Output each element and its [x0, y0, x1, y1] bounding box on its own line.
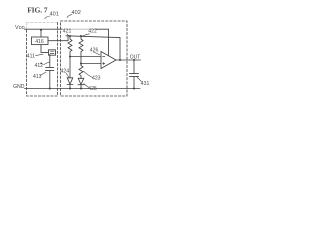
capacitor 431 top lead [133, 60, 135, 73]
wire opamp supply [96, 29, 109, 55]
capacitor 413 [46, 67, 54, 70]
node dot R421 top [69, 35, 71, 37]
capacitor 431 [130, 73, 139, 76]
leader 422 [82, 34, 90, 37]
diode 424 [67, 78, 73, 89]
wire 416 output to node [48, 36, 68, 41]
node dot out cap [133, 59, 135, 61]
leader 421 [67, 34, 70, 37]
feedback wire down to output [119, 38, 121, 60]
transistor 412 node dot [40, 63, 42, 65]
block 416 [32, 37, 49, 45]
capacitor 431 bottom lead [133, 76, 135, 88]
opamp input wire minus [70, 56, 101, 58]
node dot diode425 gnd [80, 88, 82, 90]
svg-text:FIG. 7: FIG. 7 [27, 5, 48, 14]
wire 421 to diode [69, 57, 71, 79]
node dot plus [80, 63, 82, 65]
leader 425 [84, 84, 89, 88]
svg-text:GND: GND [13, 84, 25, 90]
opamp input wire plus [81, 63, 101, 65]
leader 401 [45, 16, 50, 19]
output wire [116, 59, 141, 61]
wire 412 to cap [49, 54, 51, 67]
opamp minus sign [103, 56, 105, 58]
leader 424 [66, 73, 69, 78]
resistor 422 [79, 36, 83, 64]
node dot cap-gnd [49, 88, 51, 90]
dashed box 401 [27, 22, 58, 96]
leader 423 [84, 71, 93, 77]
diode 425 [78, 78, 84, 88]
svg-text:421: 421 [63, 29, 72, 35]
component 415 small box [49, 50, 56, 55]
svg-text:423: 423 [92, 75, 101, 81]
dashed box 401 top edge faint [27, 23, 58, 30]
node dot feedback [119, 59, 121, 61]
leader 411 [36, 54, 44, 55]
GND rail [25, 88, 141, 90]
node dot minus [69, 56, 71, 58]
VDD rail [25, 28, 63, 30]
wire cap to gnd [49, 71, 51, 89]
leader 413 [41, 72, 47, 75]
leader 412 [44, 62, 50, 65]
VDD rail faint continuation [62, 28, 96, 30]
dashed box 402 [61, 21, 128, 96]
svg-text:413: 413 [33, 74, 42, 80]
svg-text:VDD: VDD [15, 25, 25, 31]
svg-text:411: 411 [27, 53, 35, 59]
svg-text:401: 401 [50, 11, 59, 17]
svg-text:OUT: OUT [130, 54, 141, 60]
svg-text:402: 402 [72, 10, 81, 16]
wire rail to 416 [40, 30, 42, 37]
wire 416 down [41, 45, 49, 53]
leader 426 [94, 52, 100, 55]
node wire top (feedback bus) [66, 36, 120, 38]
resistor 423 [79, 64, 83, 79]
svg-text:425: 425 [88, 86, 97, 92]
node dot diode424 gnd [69, 88, 71, 90]
opamp plus sign [103, 62, 105, 64]
svg-text:424: 424 [61, 68, 70, 74]
node dot R422 top [80, 35, 82, 37]
svg-text:431: 431 [141, 81, 150, 87]
op-amp 426 [101, 52, 116, 69]
node dot rail-416 [40, 29, 42, 31]
svg-text:416: 416 [35, 39, 44, 45]
leader 402 [67, 15, 72, 18]
leader 431 [137, 77, 142, 82]
node dot cap431 gnd [133, 88, 135, 90]
resistor 421 [68, 36, 72, 57]
